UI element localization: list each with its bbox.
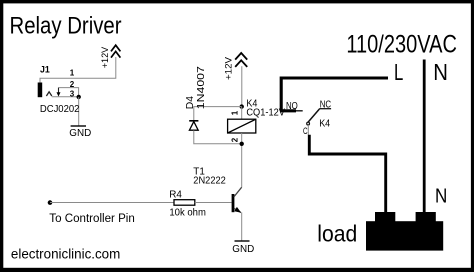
wire junction to diode top — [194, 107, 242, 121]
svg-text:1: 1 — [231, 110, 240, 115]
collector diagonal — [234, 187, 242, 197]
wire stem — [241, 66, 243, 106]
connector J1 — [38, 57, 116, 126]
sleeve caret — [46, 92, 51, 96]
ground GND under J1 — [69, 126, 91, 139]
power +12V symbol 2 — [223, 53, 247, 107]
svg-text:DCJ0202: DCJ0202 — [40, 104, 80, 115]
svg-text:electroniclinic.com: electroniclinic.com — [11, 246, 120, 261]
NC stub — [319, 108, 331, 110]
svg-text:N: N — [435, 184, 447, 207]
svg-text:110/230VAC: 110/230VAC — [346, 30, 457, 58]
svg-text:+12V: +12V — [100, 46, 111, 68]
node: controller pin start dot — [48, 200, 53, 205]
svg-text:R4: R4 — [169, 190, 182, 201]
load body — [366, 221, 443, 250]
emitter wire down — [241, 212, 243, 240]
pin2 arrowhead — [57, 92, 61, 96]
svg-text:2: 2 — [231, 137, 240, 142]
wire pin3 — [52, 96, 79, 98]
thick common-to-load wire — [309, 135, 385, 213]
resistor R4 10k ohm — [169, 190, 231, 219]
svg-text:C: C — [303, 126, 308, 136]
ground GND under transistor — [232, 241, 254, 255]
svg-text:+12V: +12V — [223, 56, 234, 80]
wire to base — [195, 202, 232, 204]
svg-text:2N2222: 2N2222 — [193, 176, 226, 187]
node: coil pin2 / diode anode junction — [240, 142, 244, 146]
svg-text:Relay Driver: Relay Driver — [10, 13, 122, 40]
svg-text:K4: K4 — [319, 119, 330, 130]
svg-text:10k ohm: 10k ohm — [169, 207, 206, 218]
svg-text:1: 1 — [70, 68, 75, 77]
wire diode bottom — [194, 130, 242, 143]
thin common stub — [307, 125, 309, 135]
wire to resistor — [50, 202, 174, 204]
relay coil K4 CQ1-12V — [228, 99, 286, 188]
base bar — [232, 194, 235, 212]
transistor T1 2N2222 — [193, 166, 241, 240]
pivot circle — [307, 122, 310, 125]
svg-text:GND: GND — [69, 128, 91, 139]
svg-text:D4: D4 — [185, 96, 196, 109]
jack barrel — [38, 83, 43, 98]
svg-text:GND: GND — [232, 244, 254, 255]
emitter arrowhead — [234, 207, 241, 213]
svg-text:1N4007: 1N4007 — [196, 66, 207, 109]
right terminal — [416, 212, 436, 222]
svg-text:CQ1-12V: CQ1-12V — [246, 108, 285, 119]
svg-text:J1: J1 — [40, 65, 50, 75]
junction dot — [77, 95, 81, 99]
svg-text:2: 2 — [70, 80, 75, 89]
svg-text:N: N — [433, 59, 448, 85]
emitter diagonal — [234, 208, 241, 212]
svg-text:3: 3 — [70, 89, 75, 98]
relay contact K4 (SPDT) — [282, 99, 331, 136]
svg-text:NC: NC — [320, 99, 332, 110]
svg-text:L: L — [394, 59, 403, 85]
wire pin1 to +12V — [40, 57, 116, 83]
contact arm — [308, 109, 319, 122]
NO stub — [282, 110, 303, 112]
svg-text:To Controller Pin: To Controller Pin — [49, 213, 135, 225]
wire pin2 — [241, 133, 243, 188]
diode D4 1N4007 — [185, 66, 242, 144]
svg-text:load: load — [317, 221, 357, 247]
thick L wire — [280, 78, 388, 111]
load block — [366, 212, 443, 251]
thick N wire — [423, 60, 426, 214]
power +12V symbol 1 — [100, 45, 120, 68]
wire pin1 — [241, 107, 243, 120]
node: +12V / coil pin1 / diode cathode junction — [240, 104, 244, 108]
left terminal — [375, 212, 395, 222]
wire to ground — [78, 97, 80, 126]
wire pin2 — [59, 88, 79, 97]
